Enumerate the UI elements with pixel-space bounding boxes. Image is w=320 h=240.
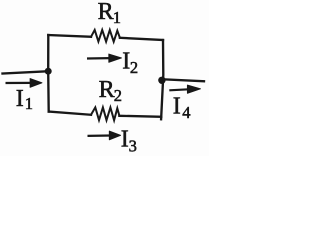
node left junction <box>45 68 52 75</box>
svg-text:3: 3 <box>129 136 137 155</box>
resistor R1 <box>91 30 120 42</box>
wire top rail left <box>48 35 91 37</box>
svg-text:2: 2 <box>130 58 138 77</box>
arrow I2 <box>87 54 122 62</box>
svg-text:I: I <box>121 127 129 153</box>
wire right exit <box>163 79 205 81</box>
svg-text:I: I <box>16 86 24 112</box>
arrow I3 <box>88 131 121 140</box>
svg-text:I: I <box>173 93 181 119</box>
resistor R2 <box>91 107 119 120</box>
node right junction <box>158 77 165 84</box>
arrow I4 <box>169 85 200 93</box>
arrow I1 <box>6 79 43 88</box>
svg-text:4: 4 <box>182 103 190 122</box>
svg-text:R: R <box>98 0 114 25</box>
svg-text:1: 1 <box>25 94 33 113</box>
wire bottom rail left <box>49 112 91 115</box>
svg-text:R: R <box>99 77 115 103</box>
wire bottom rail right <box>119 116 161 117</box>
wire right vertical <box>161 40 163 119</box>
wire left entry <box>3 71 49 73</box>
wire top rail right <box>120 38 163 40</box>
wire left vertical <box>47 35 50 112</box>
svg-text:1: 1 <box>113 8 121 27</box>
svg-text:2: 2 <box>114 86 122 105</box>
